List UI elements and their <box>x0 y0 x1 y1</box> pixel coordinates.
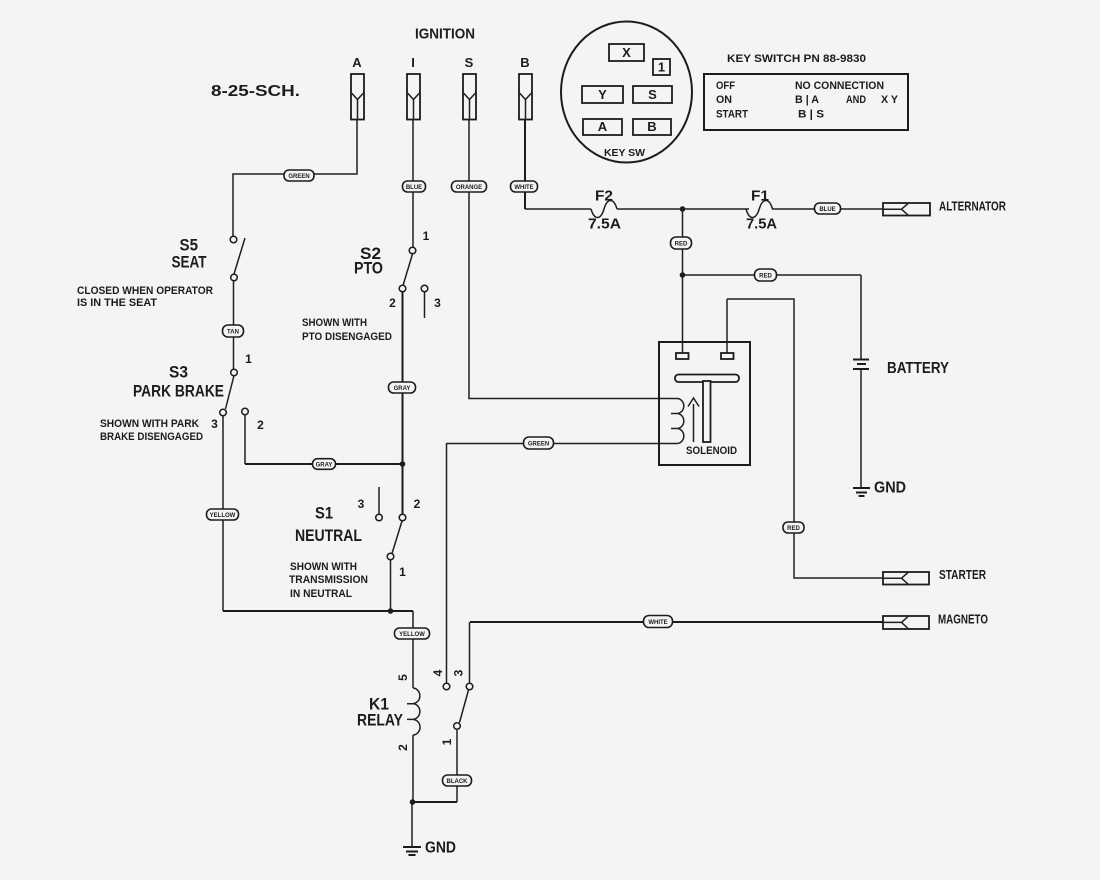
svg-text:IGNITION: IGNITION <box>415 26 475 43</box>
svg-text:F2: F2 <box>595 189 613 205</box>
svg-text:GREEN: GREEN <box>528 442 549 448</box>
svg-text:NO CONNECTION: NO CONNECTION <box>795 80 884 92</box>
svg-text:2: 2 <box>257 418 264 432</box>
svg-text:RED: RED <box>759 274 772 280</box>
svg-text:A: A <box>598 119 608 134</box>
svg-text:S3: S3 <box>169 364 188 382</box>
svg-text:3: 3 <box>211 417 218 431</box>
svg-text:AND: AND <box>846 94 866 106</box>
svg-text:B: B <box>520 55 529 70</box>
svg-text:IS IN THE SEAT: IS IN THE SEAT <box>77 297 157 309</box>
svg-text:1: 1 <box>440 738 454 745</box>
svg-text:SHOWN WITH: SHOWN WITH <box>290 561 357 573</box>
svg-text:BRAKE DISENGAGED: BRAKE DISENGAGED <box>100 431 203 443</box>
svg-text:3: 3 <box>452 669 466 676</box>
svg-text:BLACK: BLACK <box>447 779 469 785</box>
svg-text:PTO: PTO <box>354 260 383 278</box>
svg-text:NEUTRAL: NEUTRAL <box>295 527 362 545</box>
svg-text:KEY SW: KEY SW <box>604 147 645 159</box>
svg-text:SHOWN WITH: SHOWN WITH <box>302 317 367 329</box>
svg-text:5: 5 <box>396 674 410 681</box>
svg-text:3: 3 <box>358 497 365 511</box>
svg-text:SEAT: SEAT <box>172 254 207 272</box>
svg-text:YELLOW: YELLOW <box>399 632 425 638</box>
svg-text:OFF: OFF <box>716 80 735 92</box>
svg-text:GRAY: GRAY <box>394 386 411 392</box>
svg-text:GND: GND <box>874 480 906 497</box>
svg-text:2: 2 <box>414 497 421 511</box>
svg-text:1: 1 <box>658 60 665 75</box>
svg-text:A: A <box>352 55 362 70</box>
svg-text:IN NEUTRAL: IN NEUTRAL <box>290 588 352 600</box>
svg-text:MAGNETO: MAGNETO <box>938 613 988 627</box>
svg-text:X: X <box>622 45 631 60</box>
svg-text:3: 3 <box>434 296 441 310</box>
svg-text:TAN: TAN <box>227 330 239 336</box>
svg-text:2: 2 <box>396 744 410 751</box>
svg-text:B | S: B | S <box>798 109 824 121</box>
svg-text:ORANGE: ORANGE <box>456 185 482 191</box>
svg-text:7.5A: 7.5A <box>588 217 622 233</box>
svg-text:7.5A: 7.5A <box>746 217 778 233</box>
svg-text:X Y: X Y <box>881 94 899 106</box>
svg-text:I: I <box>411 55 415 70</box>
svg-text:1: 1 <box>399 565 406 579</box>
svg-text:1: 1 <box>423 229 430 243</box>
svg-text:S1: S1 <box>315 505 333 523</box>
svg-text:GREEN: GREEN <box>288 174 309 180</box>
svg-text:START: START <box>716 109 748 121</box>
svg-text:BLUE: BLUE <box>819 207 835 213</box>
svg-text:SHOWN WITH PARK: SHOWN WITH PARK <box>100 418 199 430</box>
svg-text:SOLENOID: SOLENOID <box>686 445 737 457</box>
svg-text:8-25-SCH.: 8-25-SCH. <box>211 83 300 100</box>
svg-text:TRANSMISSION: TRANSMISSION <box>289 574 368 586</box>
svg-text:B | A: B | A <box>795 94 819 106</box>
svg-text:2: 2 <box>389 296 396 310</box>
svg-text:BLUE: BLUE <box>406 185 422 191</box>
svg-text:ON: ON <box>716 94 732 106</box>
svg-text:BATTERY: BATTERY <box>887 360 949 377</box>
svg-text:S: S <box>465 55 474 70</box>
svg-text:B: B <box>647 119 656 134</box>
svg-text:S: S <box>648 87 657 102</box>
svg-text:STARTER: STARTER <box>939 568 986 582</box>
svg-text:GRAY: GRAY <box>316 462 333 468</box>
svg-text:CLOSED WHEN OPERATOR: CLOSED WHEN OPERATOR <box>77 285 213 297</box>
svg-text:S5: S5 <box>180 237 199 255</box>
svg-text:1: 1 <box>245 352 252 366</box>
svg-text:RELAY: RELAY <box>357 712 403 730</box>
svg-text:WHITE: WHITE <box>648 620 667 626</box>
svg-text:RED: RED <box>675 242 688 248</box>
svg-text:Y: Y <box>598 87 607 102</box>
svg-text:WHITE: WHITE <box>514 185 533 191</box>
svg-text:F1: F1 <box>751 189 769 205</box>
svg-text:KEY SWITCH PN 88-9830: KEY SWITCH PN 88-9830 <box>727 53 866 65</box>
svg-text:YELLOW: YELLOW <box>210 513 236 519</box>
svg-text:RED: RED <box>787 526 800 532</box>
svg-text:ALTERNATOR: ALTERNATOR <box>939 200 1006 214</box>
svg-text:PTO DISENGAGED: PTO DISENGAGED <box>302 331 392 343</box>
svg-text:4: 4 <box>431 669 445 676</box>
svg-text:PARK BRAKE: PARK BRAKE <box>133 383 224 401</box>
svg-text:GND: GND <box>425 840 456 857</box>
